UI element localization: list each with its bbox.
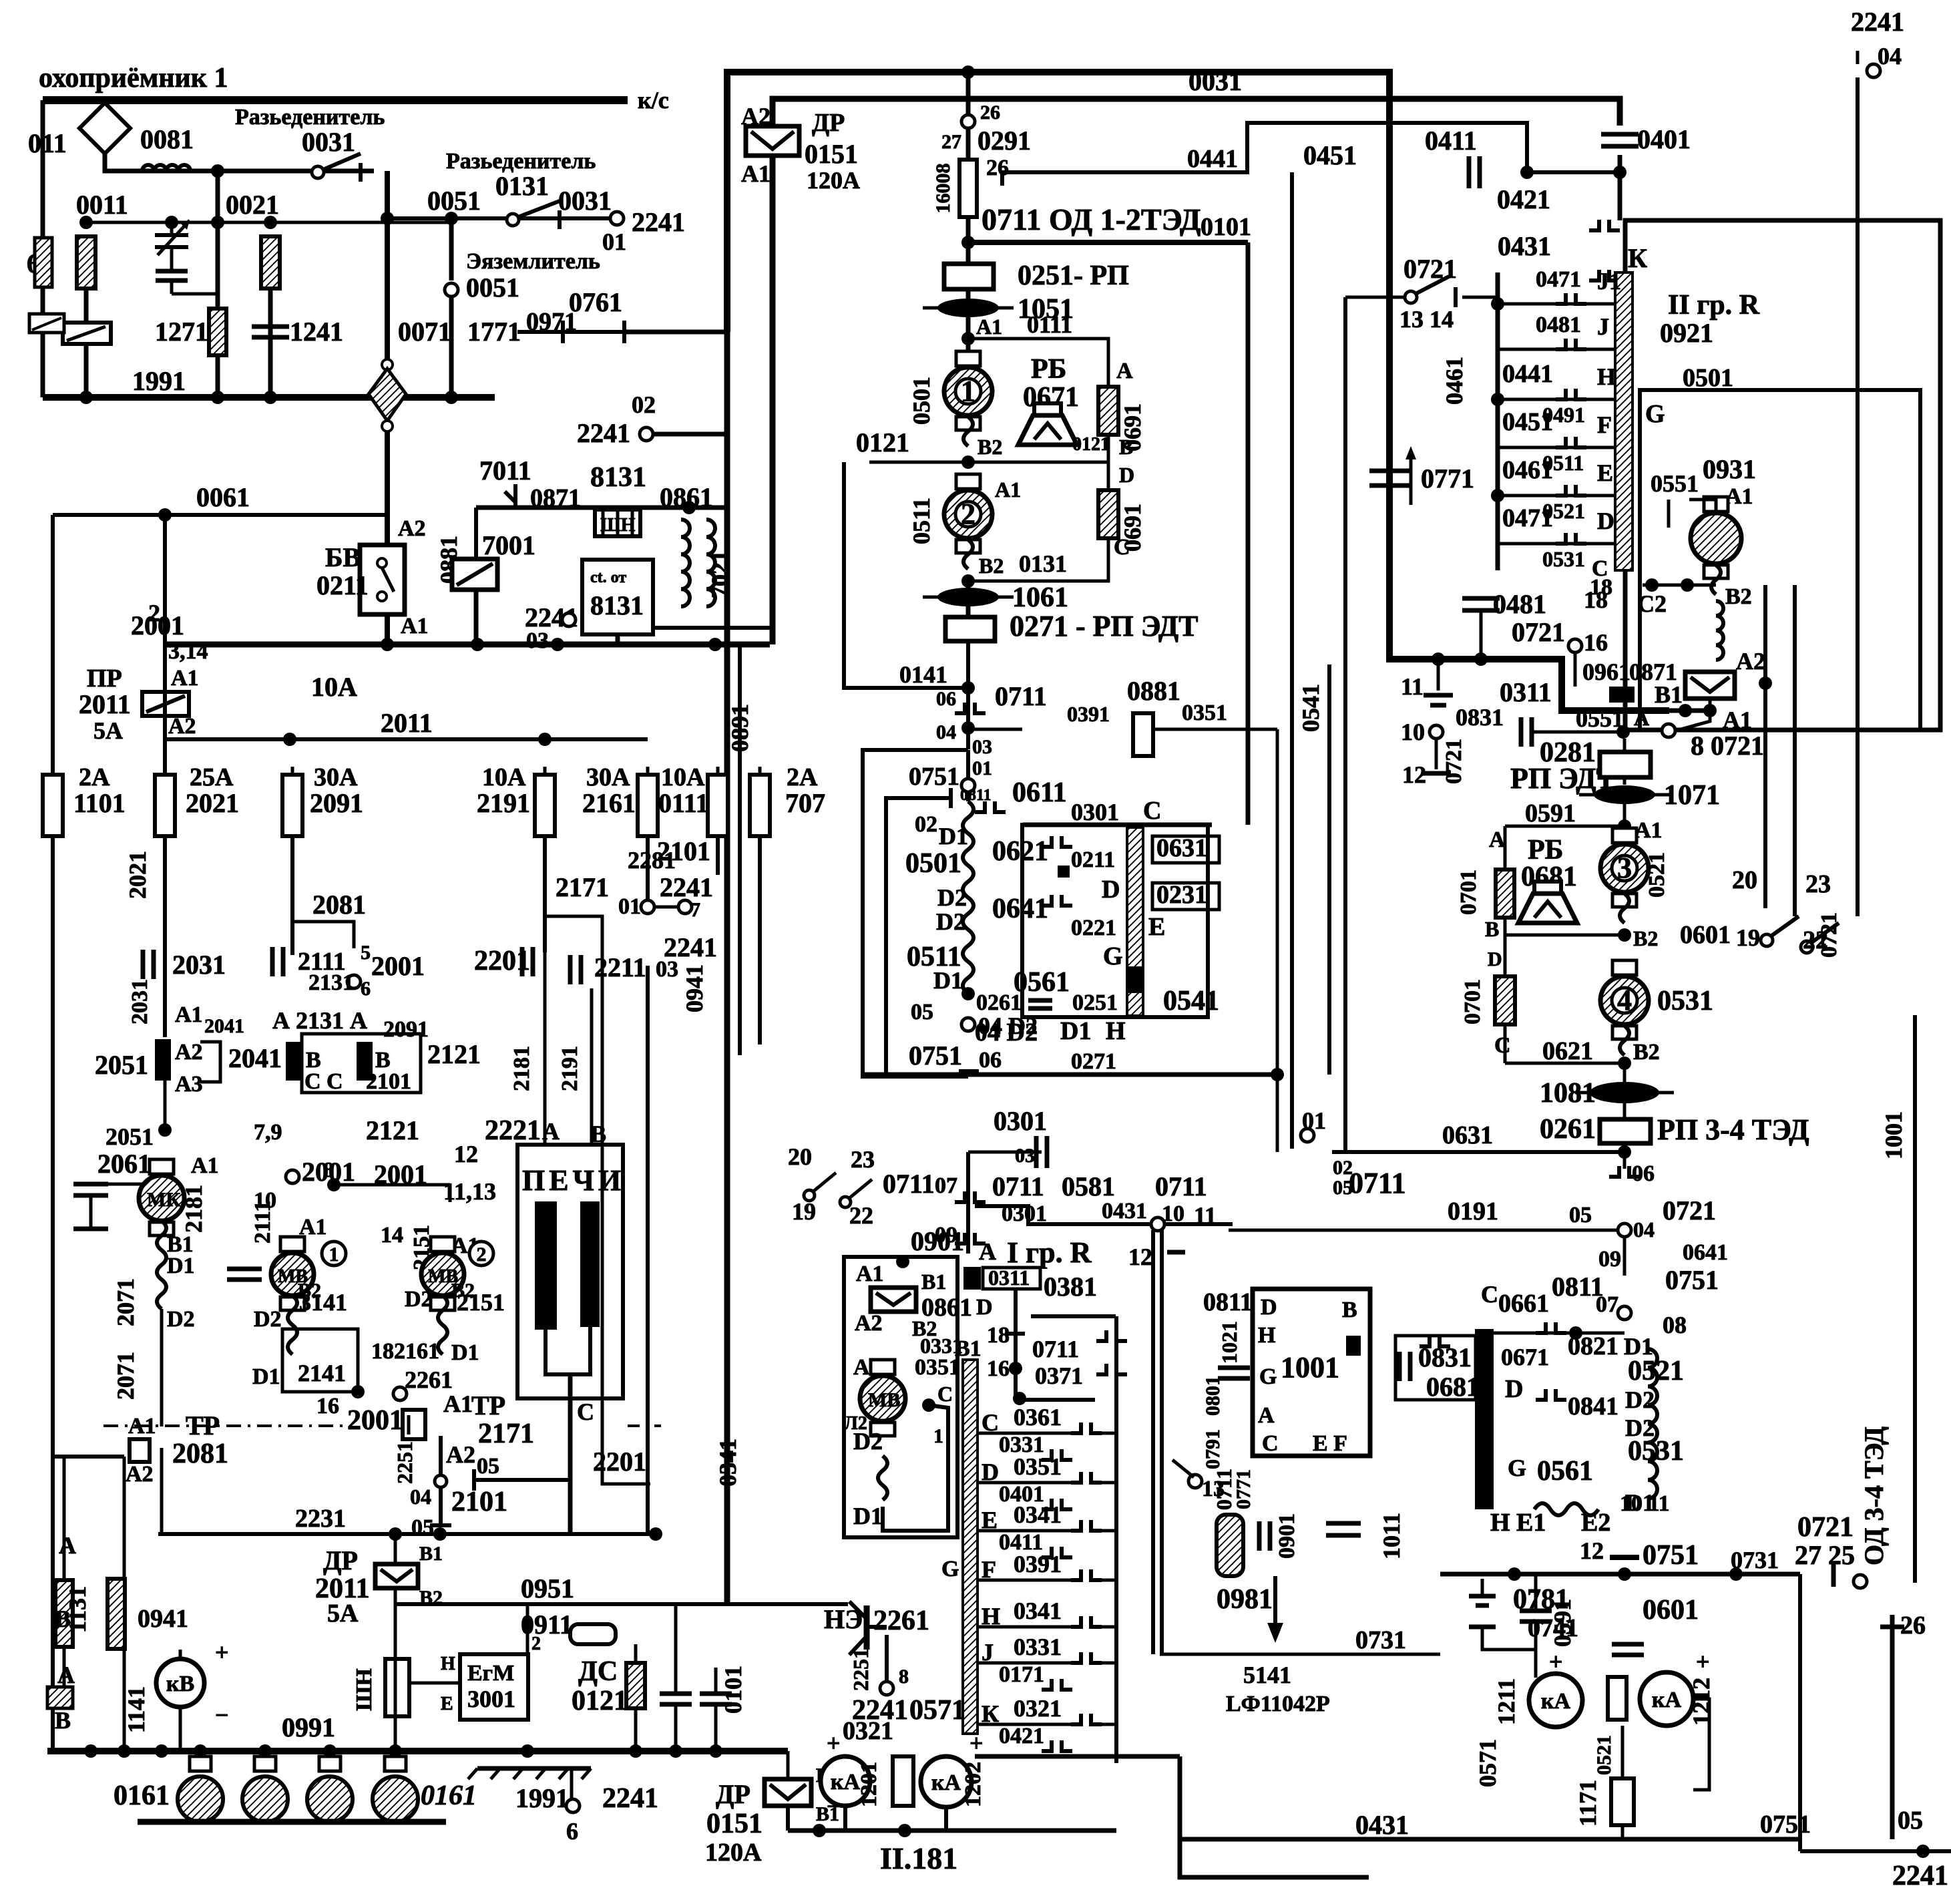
wire рб mid [1505, 934, 1624, 937]
capacitor 2061 [73, 1184, 108, 1229]
svg-text:20: 20 [1732, 866, 1757, 894]
svg-text:0301: 0301 [994, 1106, 1047, 1136]
svg-text:5А: 5А [327, 1599, 359, 1628]
wire left rail [51, 515, 55, 1751]
wire 0101 run [968, 240, 1248, 245]
capacitor ic [1218, 1368, 1250, 1378]
svg-text:16: 16 [1584, 629, 1608, 656]
tick 05 [472, 1469, 476, 1491]
contact 0341 [1071, 1616, 1102, 1627]
svg-text:0891: 0891 [726, 704, 753, 752]
wire ladder left rail [1496, 272, 1500, 570]
svg-text:0711: 0711 [992, 1171, 1044, 1201]
svg-text:10А: 10А [311, 672, 357, 702]
relay A2-A1 [1685, 672, 1735, 699]
sensor 1071 [1579, 785, 1670, 804]
junction [1679, 704, 1692, 717]
svg-text:кВ: кВ [166, 1672, 194, 1696]
wire btm corner [1180, 1756, 1369, 1877]
svg-text:0721: 0721 [1512, 617, 1565, 647]
capacitor 0301 [1036, 1136, 1047, 1168]
svg-text:G: G [1508, 1455, 1526, 1481]
svg-text:04: 04 [410, 1485, 431, 1509]
wire earth drop2 [449, 298, 454, 397]
contactor 2131 blob [286, 1042, 302, 1081]
junction [211, 391, 224, 404]
wire печь U loop [546, 1327, 590, 1374]
svg-text:+: + [1696, 1648, 1710, 1675]
svg-text:0071: 0071 [398, 317, 451, 347]
meter кВ 1141 [156, 1659, 204, 1707]
svg-text:Н: Н [1258, 1323, 1275, 1348]
svg-text:10А: 10А [482, 763, 526, 791]
junction sq [1058, 866, 1070, 878]
fuse 2А 707 [750, 767, 770, 844]
svg-text:D1: D1 [853, 1503, 883, 1529]
svg-text:1241: 1241 [290, 317, 343, 347]
svg-text:07: 07 [1596, 1292, 1618, 1317]
svg-text:D: D [1505, 1375, 1523, 1403]
svg-text:ЕгМ: ЕгМ [467, 1661, 514, 1686]
wire др btm3 [786, 1806, 790, 1831]
fuse 30А 2091 [282, 767, 302, 844]
wire amm down2 [1621, 1825, 1624, 1839]
wire edge [41, 287, 45, 314]
capacitor 2111 plates [227, 1269, 262, 1280]
arrow down ic [1267, 1576, 1283, 1643]
svg-text:0021: 0021 [226, 190, 279, 220]
lamp 0161 #3 [307, 1756, 353, 1822]
svg-text:1021: 1021 [1217, 1321, 1241, 1364]
svg-text:0811: 0811 [1203, 1288, 1253, 1316]
capacitor 2111 [272, 947, 283, 976]
junction [211, 216, 224, 229]
terminal 07 rb [1618, 1306, 1631, 1320]
contact 7011 [505, 492, 515, 502]
wire 16 row [1020, 1398, 1095, 1402]
svg-text:0961: 0961 [1582, 658, 1631, 685]
wire 0731 row [1160, 1653, 1440, 1656]
svg-text:0531: 0531 [1657, 986, 1713, 1016]
svg-text:D2: D2 [254, 1307, 282, 1332]
svg-text:10А: 10А [661, 763, 705, 791]
svg-text:0901: 0901 [1275, 1513, 1299, 1559]
svg-text:D2: D2 [405, 1287, 433, 1312]
junction [521, 1744, 534, 1758]
capacitor 11 [1424, 659, 1453, 705]
junction [433, 1527, 447, 1541]
svg-text:0721: 0721 [1442, 739, 1466, 784]
contact 0481 [1556, 339, 1586, 349]
relay 7001 [452, 559, 497, 590]
label 0311 box [983, 1266, 1040, 1290]
wire 8131 top [476, 506, 728, 510]
svg-text:2001: 2001 [347, 1405, 403, 1436]
svg-text:1202: 1202 [961, 1762, 986, 1807]
svg-text:ШН: ШН [352, 1668, 377, 1711]
svg-text:1991: 1991 [132, 366, 186, 396]
device ШН 8131 [595, 510, 640, 536]
svg-text:707: 707 [785, 788, 825, 818]
wire 0691 link [1107, 435, 1110, 490]
wire рп эдт [1623, 739, 1627, 752]
arrow 26 [1880, 1615, 1904, 1839]
svg-text:2071: 2071 [112, 1278, 139, 1326]
svg-text:2: 2 [961, 498, 975, 530]
svg-text:0841: 0841 [1568, 1392, 1618, 1420]
capacitor [156, 267, 218, 294]
hatch box [47, 1687, 73, 1708]
svg-text:0121: 0121 [1072, 434, 1110, 455]
capacitor 1011 [1326, 1523, 1361, 1535]
svg-text:1991: 1991 [515, 1783, 569, 1813]
svg-text:0831: 0831 [1456, 704, 1504, 731]
resistor 0691a [1098, 387, 1118, 435]
svg-text:кА: кА [1541, 1689, 1571, 1714]
svg-text:D: D [1488, 948, 1502, 970]
svg-text:ТР: ТР [471, 1390, 505, 1420]
wire 2241 drop [646, 966, 650, 1534]
svg-text:2191: 2191 [558, 1046, 582, 1091]
svg-text:0441: 0441 [1187, 145, 1238, 173]
svg-text:D1: D1 [451, 1340, 479, 1365]
relay РП 0251 coil [944, 264, 994, 289]
svg-text:+: + [215, 1639, 229, 1666]
terminal 03 [562, 613, 576, 626]
svg-text:Разьеденитель: Разьеденитель [446, 149, 596, 174]
svg-text:0671: 0671 [1501, 1344, 1549, 1370]
transistor НЭ 2261 [849, 1601, 887, 1655]
svg-text:1101: 1101 [73, 788, 126, 818]
wire 0191 row [1229, 1229, 1618, 1232]
fuse ПР 2011 symbol [142, 692, 189, 716]
svg-text:12: 12 [1128, 1244, 1152, 1270]
wire 12 pair a [1151, 1230, 1155, 1654]
wire fuse drop 707 [758, 836, 762, 1044]
wire ladder row 0341 [978, 1529, 1071, 1533]
svg-text:БВ: БВ [325, 542, 361, 572]
capacitor 12 [1422, 771, 1451, 776]
wire ladder row 0471 [1498, 542, 1615, 546]
svg-text:30А: 30А [314, 763, 358, 791]
svg-text:0431: 0431 [1102, 1199, 1147, 1223]
svg-text:25А: 25А [190, 763, 234, 791]
svg-text:0451: 0451 [1502, 408, 1553, 436]
wire motor lead B2 [1711, 565, 1721, 594]
svg-text:ДР: ДР [812, 109, 845, 137]
svg-text:23: 23 [1805, 870, 1831, 898]
wire 0581 path [975, 1206, 1233, 1224]
contactor БВ contacts [377, 558, 394, 601]
terminal 26t [961, 115, 975, 128]
svg-text:18: 18 [987, 1323, 1010, 1348]
junction [327, 1178, 341, 1191]
wire 2021 drop [163, 644, 167, 782]
terminal 16 [1568, 639, 1582, 652]
svg-text:2201: 2201 [593, 1447, 646, 1477]
svg-text:J1: J1 [1597, 268, 1621, 295]
svg-text:11: 11 [1401, 673, 1424, 700]
junction [79, 216, 93, 229]
wire edge [41, 333, 45, 397]
wire pantograph drop [105, 154, 374, 171]
box 0631 cell [1152, 836, 1219, 863]
svg-text:2А: 2А [79, 763, 110, 791]
contactor blob 0311 [963, 1267, 981, 1290]
svg-text:120А: 120А [807, 167, 860, 194]
svg-text:8: 8 [899, 1666, 909, 1688]
svg-text:5: 5 [361, 942, 371, 964]
svg-text:2101: 2101 [366, 1069, 411, 1094]
svg-text:2041: 2041 [204, 1015, 244, 1037]
terminal [610, 212, 624, 225]
svg-text:ПР: ПР [87, 664, 122, 693]
svg-text:Эяземлитель: Эяземлитель [466, 249, 600, 274]
junction [1491, 489, 1504, 502]
svg-text:22: 22 [849, 1202, 873, 1229]
svg-text:0471: 0471 [1536, 267, 1581, 292]
junction [1432, 652, 1445, 666]
motor 4 ТЭД 0531 [1600, 960, 1649, 1039]
svg-text:0301: 0301 [1071, 799, 1119, 825]
inductor 7021b [706, 520, 715, 606]
svg-text:0261: 0261 [976, 990, 1022, 1015]
junction [961, 332, 975, 345]
svg-text:0461: 0461 [1441, 357, 1468, 405]
junction [389, 1744, 402, 1758]
svg-text:В: В [1119, 435, 1133, 459]
svg-text:0551: 0551 [1651, 470, 1699, 497]
wire left frame drop [724, 332, 730, 1604]
svg-text:3,14: 3,14 [168, 639, 208, 664]
svg-text:3: 3 [1617, 851, 1632, 884]
tick 05b [430, 1523, 451, 1527]
svg-text:МК: МК [147, 1189, 180, 1211]
junction [158, 508, 172, 522]
junction [1491, 297, 1504, 311]
wire др2011 down [394, 1588, 397, 1751]
svg-text:А: А [1634, 706, 1649, 730]
svg-text:0131: 0131 [495, 171, 549, 201]
switch 0031 [312, 154, 361, 182]
svg-text:0601: 0601 [1643, 1595, 1699, 1626]
svg-text:2241: 2241 [1851, 7, 1904, 37]
wire cap b [714, 1668, 718, 1694]
box ПЕЧИ [517, 1145, 623, 1398]
contact 0461 [1556, 485, 1586, 496]
svg-text:G: G [1259, 1364, 1277, 1389]
contact 0401 [1042, 1499, 1072, 1509]
component 0881 [1133, 713, 1153, 756]
junction [1613, 166, 1627, 179]
wire cap a2 [674, 1704, 678, 1751]
svg-text:А1: А1 [401, 614, 429, 638]
wire 0541 rail [1327, 664, 1331, 1075]
svg-text:0101: 0101 [720, 1666, 746, 1714]
svg-text:2261: 2261 [405, 1366, 453, 1393]
wire edge [41, 100, 45, 238]
junction [381, 638, 394, 651]
wire A1 branch [1634, 711, 1710, 731]
svg-text:+: + [1549, 1648, 1563, 1675]
svg-text:Е: Е [1597, 459, 1613, 486]
svg-text:А: А [1489, 827, 1506, 852]
svg-text:06: 06 [936, 688, 956, 710]
svg-text:Н: Н [1106, 1017, 1126, 1045]
svg-text:D1: D1 [167, 1254, 195, 1278]
wire pantograph bus k/s [43, 96, 628, 104]
svg-text:D: D [1261, 1295, 1277, 1320]
svg-text:А2: А2 [1736, 648, 1765, 675]
svg-text:04: 04 [1878, 43, 1902, 69]
lamp 0161 #2 [242, 1756, 288, 1822]
wire right rail2 [1798, 1574, 1802, 1839]
svg-text:0541: 0541 [1297, 684, 1324, 732]
svg-text:А1: А1 [741, 160, 771, 187]
svg-text:0061: 0061 [196, 482, 250, 512]
contact 0671 [1420, 1336, 1450, 1346]
wire center bus3 [966, 641, 970, 749]
svg-text:01: 01 [972, 757, 992, 779]
svg-text:В2: В2 [978, 435, 1002, 459]
svg-text:0711: 0711 [883, 1169, 935, 1199]
ic pin blob [1346, 1336, 1361, 1356]
wire frame inner [773, 99, 1620, 644]
svg-text:Н Е1: Н Е1 [1490, 1509, 1546, 1537]
relay ДР 2011 [375, 1564, 418, 1588]
wire 0591 row [1505, 825, 1624, 828]
svg-text:30А: 30А [586, 763, 630, 791]
meter кА 1212 [1640, 1672, 1693, 1726]
svg-text:1061: 1061 [1012, 582, 1068, 613]
svg-text:01: 01 [618, 894, 641, 919]
device М 3001 box [460, 1654, 528, 1720]
wire 1101 drop [51, 836, 55, 1751]
wire 0351 drop [1276, 729, 1279, 1152]
wire mv lead [878, 1456, 887, 1500]
motor МВ2 [421, 1237, 464, 1310]
svg-text:В1: В1 [921, 1270, 946, 1294]
svg-text:0051: 0051 [427, 186, 481, 216]
svg-text:27 25: 27 25 [1795, 1540, 1855, 1570]
svg-text:0701: 0701 [1456, 870, 1481, 915]
svg-text:G: G [941, 1557, 959, 1581]
svg-text:1081: 1081 [1540, 1078, 1596, 1109]
svg-text:0421: 0421 [999, 1724, 1044, 1748]
svg-text:0951: 0951 [521, 1573, 574, 1603]
terminal 01 mid [1301, 1129, 1314, 1142]
wire 13-14 to ladder [1462, 296, 1498, 299]
svg-text:19: 19 [1736, 924, 1760, 951]
wire mk down [160, 1309, 164, 1426]
meter кА 1202 [921, 1756, 971, 1807]
wire 2231 row [158, 1532, 656, 1536]
contactor БВ 0211 [360, 545, 405, 614]
terminal 6 [347, 975, 361, 988]
svg-text:А1: А1 [191, 1153, 219, 1178]
svg-text:D2: D2 [1625, 1386, 1655, 1413]
wire [1623, 1237, 1627, 1276]
wire 2081 jog [292, 922, 354, 948]
svg-text:0341: 0341 [1014, 1501, 1062, 1528]
capacitor 0481b [1462, 598, 1500, 610]
wire 13-14 row [1345, 296, 1405, 299]
wire amm down [1621, 1726, 1624, 1778]
tick bracket inner [949, 788, 953, 808]
svg-text:0681: 0681 [1426, 1372, 1480, 1402]
wire fuse drop 2191 [543, 836, 547, 952]
contact 0441 [1556, 389, 1586, 399]
capacitor 0781 pair [1469, 1579, 1536, 1650]
sensor 1061 [923, 588, 1014, 606]
wire mv1 lead [288, 1296, 297, 1354]
svg-text:2241: 2241 [577, 418, 630, 448]
junction [896, 1255, 909, 1268]
contact 0431 [1589, 270, 1620, 280]
svg-text:2241: 2241 [1892, 1861, 1948, 1891]
svg-text:0331: 0331 [1014, 1634, 1062, 1660]
svg-text:05: 05 [411, 1515, 434, 1540]
switch 0721 13-14 [1405, 276, 1456, 307]
svg-text:03: 03 [656, 957, 678, 982]
device ШН box [385, 1659, 409, 1716]
wire ladder rowb 0361 [1102, 1432, 1116, 1435]
svg-text:0471: 0471 [1502, 504, 1553, 532]
junction [155, 1744, 168, 1758]
svg-text:0161: 0161 [421, 1780, 477, 1811]
wire fuse drop 2091 [290, 836, 294, 955]
svg-text:0161: 0161 [114, 1780, 170, 1811]
svg-text:А: А [1258, 1403, 1275, 1428]
svg-text:3141: 3141 [299, 1289, 347, 1316]
svg-text:0571: 0571 [909, 1695, 965, 1726]
terminal [678, 900, 692, 914]
resistor dark ic [1217, 1515, 1243, 1576]
junction [118, 1744, 131, 1758]
svg-text:II гр. R: II гр. R [1668, 290, 1760, 321]
svg-text:2А: 2А [787, 763, 818, 791]
wire 12 drop [1435, 739, 1438, 769]
svg-text:0321: 0321 [843, 1717, 893, 1745]
wire 05 link [474, 1478, 568, 1482]
svg-text:ОД 3-4 ТЭД: ОД 3-4 ТЭД [1859, 1426, 1889, 1565]
resistor 1131a [55, 1580, 73, 1647]
wire [966, 581, 971, 590]
wire cap b2 [714, 1704, 718, 1751]
svg-text:А1: А1 [976, 315, 1002, 339]
svg-text:011: 011 [28, 128, 67, 158]
svg-text:G: G [1645, 400, 1665, 428]
svg-text:01: 01 [602, 228, 626, 255]
svg-text:0381: 0381 [1044, 1272, 1097, 1302]
capacitor 2211 [570, 955, 581, 984]
svg-text:К: К [1628, 243, 1647, 273]
wire btm mid [975, 1754, 1180, 1759]
wire 7011 link2 [513, 484, 517, 508]
variable capacitor [155, 220, 190, 267]
svg-text:2081: 2081 [312, 890, 366, 920]
junction [158, 1123, 172, 1137]
contact 0321 [1071, 1714, 1102, 1724]
svg-text:0631: 0631 [1442, 1121, 1493, 1149]
svg-text:0641: 0641 [1683, 1240, 1728, 1265]
svg-text:В2: В2 [1633, 1040, 1660, 1065]
junction [79, 391, 93, 404]
svg-text:0571: 0571 [1474, 1739, 1501, 1787]
wire center bus2 [966, 242, 971, 264]
capacitor 0601 rb [1612, 1644, 1644, 1655]
svg-text:2101: 2101 [451, 1487, 507, 1517]
